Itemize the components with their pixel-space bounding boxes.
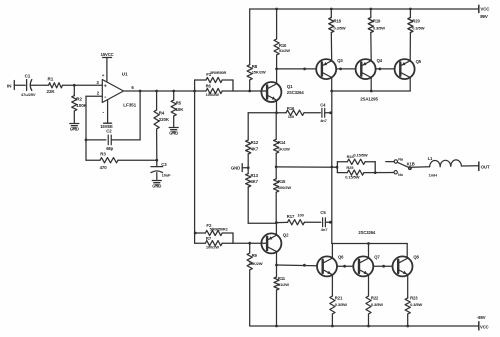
- svg-text:100/2W: 100/2W: [206, 92, 220, 97]
- resistor R21: [330, 275, 347, 326]
- svg-text:Q4: Q4: [377, 58, 383, 63]
- wire output: [124, 90, 207, 92]
- node: [275, 264, 278, 267]
- wire top rail: [250, 8, 479, 10]
- wire: [232, 233, 234, 243]
- resistor R5: [171, 91, 184, 127]
- node: [303, 264, 306, 267]
- svg-text:+: +: [102, 73, 105, 78]
- transistor Q4: [356, 58, 383, 79]
- svg-text:Q3: Q3: [337, 58, 343, 63]
- node: [275, 111, 278, 114]
- node: [370, 90, 373, 93]
- capacitor C2: [106, 128, 113, 150]
- wire base bus: [277, 264, 317, 267]
- transistor Q7: [353, 254, 380, 276]
- svg-text:GND: GND: [169, 131, 178, 136]
- node: [331, 325, 334, 328]
- svg-text:470: 470: [100, 165, 108, 170]
- resistor R4: [154, 91, 170, 160]
- transistor Q3: [316, 58, 343, 79]
- node: [336, 166, 339, 169]
- svg-text:-: -: [102, 109, 104, 115]
- wire base bus: [277, 68, 317, 70]
- transistor Q8: [393, 254, 420, 276]
- svg-text:51/2W: 51/2W: [279, 48, 290, 53]
- resistor R6: [206, 84, 250, 97]
- node: [330, 166, 333, 169]
- svg-text:Q1: Q1: [287, 84, 293, 89]
- svg-text:15VCC: 15VCC: [101, 52, 114, 57]
- svg-text:R13: R13: [251, 173, 259, 178]
- wire: [409, 78, 411, 92]
- resistor R23: [405, 275, 422, 326]
- wire: [331, 244, 333, 259]
- svg-text:Q2: Q2: [283, 233, 289, 238]
- resistor R7: [195, 236, 250, 249]
- svg-text:R11: R11: [278, 276, 286, 281]
- node: [406, 325, 409, 328]
- node: [275, 221, 278, 224]
- wire: [14, 84, 25, 86]
- svg-text:K1B: K1B: [407, 162, 415, 167]
- node: [275, 8, 278, 11]
- wire: [250, 90, 267, 92]
- resistor R12: [246, 113, 259, 168]
- svg-text:0.15/5W: 0.15/5W: [353, 153, 368, 158]
- node: [155, 90, 158, 93]
- wire: [375, 172, 394, 174]
- wire: [31, 84, 49, 86]
- svg-text:100/2W: 100/2W: [278, 185, 292, 190]
- svg-text:GND: GND: [152, 184, 161, 189]
- svg-text:C3: C3: [161, 162, 167, 167]
- ground: [70, 124, 79, 132]
- node: [330, 90, 333, 93]
- svg-text:C1: C1: [25, 74, 31, 79]
- node: [379, 68, 382, 71]
- svg-text:R9: R9: [252, 253, 258, 258]
- wire output rail: [331, 91, 333, 244]
- wire: [63, 84, 103, 86]
- svg-text:47u/25V: 47u/25V: [21, 92, 36, 97]
- svg-text:220K: 220K: [159, 117, 170, 122]
- resistor R17: [276, 212, 320, 224]
- svg-text:OUT: OUT: [481, 165, 490, 170]
- svg-text:22K: 22K: [47, 89, 56, 94]
- ground: [169, 128, 178, 136]
- node: [248, 242, 251, 245]
- node: [374, 171, 377, 174]
- label 2SA1295: [360, 97, 378, 102]
- node: [139, 90, 142, 93]
- node: [275, 68, 278, 71]
- wire feedback: [194, 91, 196, 243]
- wire: [275, 223, 277, 235]
- svg-text:-: -: [104, 94, 106, 101]
- svg-text:R5: R5: [176, 100, 182, 105]
- node: [409, 8, 412, 11]
- wire: [461, 165, 478, 167]
- wire output node: [276, 166, 337, 168]
- svg-text:R25: R25: [346, 165, 354, 170]
- svg-text:R3: R3: [100, 152, 106, 157]
- resistor R18: [329, 9, 346, 61]
- inductor L1: [428, 156, 462, 178]
- svg-text:GND: GND: [231, 165, 240, 170]
- svg-text:0.3/5W: 0.3/5W: [412, 25, 424, 30]
- wire: [248, 112, 276, 114]
- svg-text:R15: R15: [278, 179, 286, 184]
- resistor R8: [247, 9, 266, 91]
- svg-text:15K/2W: 15K/2W: [252, 69, 266, 74]
- svg-text:C4: C4: [320, 103, 326, 108]
- svg-text:2SC3264: 2SC3264: [358, 230, 376, 235]
- node: [172, 90, 175, 93]
- resistor R24: [337, 153, 375, 173]
- svg-text:+: +: [104, 83, 107, 89]
- svg-text:0.3/5W: 0.3/5W: [371, 302, 383, 307]
- power terminal -VCC: [477, 315, 489, 330]
- node: [339, 68, 342, 71]
- wire: [325, 112, 332, 114]
- wire collector bus: [332, 90, 411, 92]
- resistor R25: [337, 162, 375, 180]
- svg-text:R1: R1: [48, 76, 54, 81]
- op-amp V- pin: [100, 100, 113, 129]
- node: [247, 166, 250, 169]
- svg-text:Q8: Q8: [413, 254, 419, 259]
- svg-text:4n7: 4n7: [320, 118, 327, 123]
- svg-text:10K: 10K: [176, 107, 185, 112]
- fuse F1: [195, 71, 233, 91]
- wire: [373, 265, 392, 267]
- svg-text:C2: C2: [106, 128, 112, 133]
- svg-text:R7: R7: [206, 236, 212, 241]
- node: [367, 242, 370, 245]
- svg-text:0.15/5W: 0.15/5W: [345, 174, 360, 179]
- svg-text:VCC: VCC: [480, 7, 490, 12]
- svg-text:R6: R6: [206, 84, 212, 89]
- svg-text:R18: R18: [334, 19, 342, 24]
- resistor R9: [247, 243, 263, 326]
- resistor R15: [274, 167, 292, 223]
- wire: [86, 139, 106, 141]
- wire: [406, 244, 408, 259]
- svg-text:0.3/5W: 0.3/5W: [334, 25, 346, 30]
- node: [73, 84, 76, 87]
- wire: [111, 91, 140, 140]
- wire pin2: [86, 95, 102, 97]
- svg-text:0.3/5W: 0.3/5W: [373, 25, 385, 30]
- node: [155, 159, 158, 162]
- node: [343, 265, 346, 268]
- svg-text:R2: R2: [76, 96, 82, 101]
- wire: [370, 78, 372, 92]
- op-amp V+ pin: [101, 52, 114, 82]
- node: [369, 8, 372, 11]
- transistor Q6: [317, 254, 344, 276]
- svg-text:100: 100: [297, 212, 304, 217]
- svg-text:R12: R12: [251, 140, 259, 145]
- svg-text:0.3/5W: 0.3/5W: [410, 302, 422, 307]
- resistor R19: [368, 9, 385, 61]
- transistor Q2: [261, 233, 289, 254]
- svg-text:R22: R22: [371, 295, 379, 300]
- svg-text:68p: 68p: [106, 146, 113, 151]
- svg-text:1mH: 1mH: [429, 172, 438, 177]
- fuse F2: [195, 223, 233, 235]
- svg-text:2SA1295: 2SA1295: [360, 97, 378, 102]
- svg-text:-89V: -89V: [477, 315, 486, 320]
- resistor R1: [47, 76, 63, 93]
- svg-text:R8: R8: [252, 64, 258, 69]
- resistor R11: [274, 265, 289, 326]
- node: [303, 68, 306, 71]
- wire: [376, 68, 395, 70]
- wire bottom rail: [250, 325, 479, 327]
- wire: [276, 252, 278, 265]
- op-amp U1: [96, 72, 136, 108]
- wire: [337, 265, 353, 267]
- power terminal +VCC: [479, 5, 490, 19]
- svg-text:100: 100: [288, 114, 295, 119]
- wire: [250, 242, 267, 244]
- svg-text:R20: R20: [412, 19, 420, 24]
- wire: [411, 166, 429, 168]
- svg-text:5R0R50R: 5R0R50R: [210, 71, 226, 75]
- svg-text:R16: R16: [287, 106, 295, 111]
- node: [248, 90, 251, 93]
- input terminal IN: [7, 81, 14, 90]
- svg-text:R23: R23: [410, 295, 418, 300]
- resistor R22: [366, 275, 383, 326]
- svg-text:89V: 89V: [480, 14, 488, 19]
- output terminal OUT: [479, 162, 490, 170]
- svg-text:L1: L1: [428, 156, 433, 161]
- resistor R14: [274, 113, 290, 167]
- svg-text:4n7: 4n7: [321, 227, 328, 232]
- svg-text:R4: R4: [159, 111, 165, 116]
- node: [194, 232, 197, 235]
- svg-text:U1: U1: [122, 72, 128, 77]
- wire: [248, 222, 276, 224]
- svg-text:51/2W: 51/2W: [278, 282, 289, 287]
- node: [382, 265, 385, 268]
- svg-text:1K/2W: 1K/2W: [278, 146, 290, 151]
- transistor Q1: [261, 82, 304, 102]
- wire: [368, 244, 370, 259]
- node: [85, 139, 88, 142]
- wire: [276, 100, 278, 112]
- resistor R13: [246, 168, 259, 224]
- svg-text:4K7: 4K7: [251, 147, 259, 152]
- svg-text:Q5: Q5: [416, 59, 422, 64]
- svg-text:R17: R17: [287, 214, 295, 219]
- svg-text:IN: IN: [7, 84, 12, 89]
- wire: [336, 68, 355, 70]
- node: [275, 166, 278, 169]
- svg-text:2SC3264: 2SC3264: [287, 90, 305, 95]
- node: [367, 325, 370, 328]
- node: [329, 221, 332, 224]
- svg-text:R21: R21: [335, 295, 343, 300]
- capacitor C4: [320, 103, 327, 123]
- resistor R10: [274, 9, 290, 84]
- resistor R2: [72, 85, 88, 122]
- svg-text:10uF: 10uF: [162, 173, 172, 178]
- transistor Q5: [395, 59, 422, 79]
- ground GND tap: [231, 164, 248, 172]
- resistor R3: [86, 152, 157, 170]
- node: [329, 111, 332, 114]
- svg-text:VCC: VCC: [480, 325, 489, 330]
- svg-text:4K7: 4K7: [251, 179, 259, 184]
- resistor R16: [277, 106, 321, 119]
- svg-text:R14: R14: [278, 140, 286, 145]
- relay contact K1B: [386, 157, 415, 177]
- svg-text:Q7: Q7: [374, 254, 380, 259]
- svg-text:LF351: LF351: [123, 103, 136, 108]
- label 2SC3264: [358, 230, 376, 235]
- wire: [232, 80, 234, 91]
- svg-text:15K/2W: 15K/2W: [249, 261, 263, 266]
- svg-text:Q6: Q6: [338, 254, 344, 259]
- node: [275, 325, 278, 328]
- capacitor C1: [21, 74, 36, 97]
- wire: [331, 78, 333, 92]
- svg-text:No: No: [398, 173, 404, 177]
- wire: [325, 221, 331, 223]
- svg-text:R19: R19: [373, 19, 381, 24]
- node: [193, 90, 196, 93]
- svg-text:C5: C5: [320, 210, 326, 215]
- ground: [152, 181, 161, 189]
- resistor R20: [408, 9, 425, 61]
- svg-text:GND: GND: [70, 127, 79, 132]
- svg-text:5R0R50R2: 5R0R50R2: [210, 227, 228, 231]
- capacitor C3: [151, 160, 171, 179]
- node: [330, 8, 333, 11]
- svg-text:100/2W: 100/2W: [206, 245, 220, 250]
- wire collector bus: [332, 243, 407, 245]
- svg-text:0.3/5W: 0.3/5W: [335, 302, 347, 307]
- wire: [85, 96, 87, 160]
- capacitor C5: [320, 210, 328, 232]
